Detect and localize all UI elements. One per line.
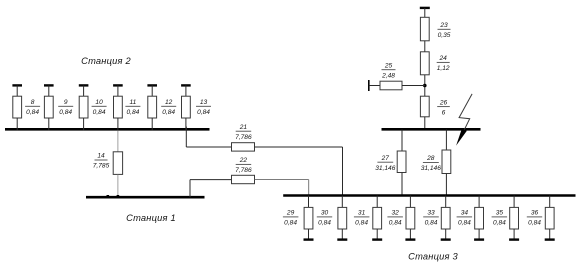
wire lead (424, 8, 426, 17)
wire lead top of R32 (409, 196, 411, 208)
terminal bar G8 (12, 84, 22, 86)
resistor R35 (510, 207, 519, 229)
wire drop from Station2 bus to link21 (185, 127, 187, 148)
svg-text:11: 11 (129, 99, 136, 106)
wire lead bottom of R9 (48, 118, 50, 131)
svg-text:0,84: 0,84 (425, 220, 438, 227)
svg-text:31: 31 (358, 210, 366, 217)
value label R23 23/0,35 (438, 22, 451, 39)
junction node (423, 84, 427, 88)
svg-text:31,146: 31,146 (375, 165, 396, 172)
resistor R26 (420, 96, 429, 117)
wire lead top of R14 (117, 131, 119, 152)
svg-text:0,84: 0,84 (284, 220, 297, 227)
svg-text:7,785: 7,785 (93, 163, 110, 170)
wire lead top of R29 (308, 196, 310, 208)
wire lead top of R10 (83, 85, 85, 96)
svg-text:30: 30 (321, 210, 329, 217)
wire drop link22 to Station3 bus (308, 180, 310, 196)
terminal bar load R31 (372, 238, 382, 240)
svg-text:34: 34 (461, 210, 469, 217)
resistor R21 (232, 143, 255, 151)
svg-text:36: 36 (531, 210, 539, 217)
svg-text:31,146: 31,146 (421, 165, 442, 172)
bus Station2 (5, 128, 210, 131)
svg-text:0,84: 0,84 (493, 220, 506, 227)
wire lead top of R34 (478, 196, 480, 208)
svg-text:0,84: 0,84 (318, 220, 331, 227)
wire lead top of R27 (401, 130, 403, 151)
svg-text:21: 21 (239, 124, 248, 131)
wire lead bottom of R30 (341, 229, 343, 240)
value label R10 10/0,84 (92, 99, 107, 116)
wire lead bottom of R11 (117, 118, 119, 131)
svg-text:0,84: 0,84 (389, 220, 402, 227)
wire lead right of R25 (402, 85, 425, 87)
svg-text:0,84: 0,84 (528, 220, 541, 227)
wire lead bottom of R13 (185, 118, 187, 131)
wire lead top of R30 (341, 196, 343, 208)
svg-text:24: 24 (439, 55, 448, 62)
resistor R34 (475, 207, 484, 229)
svg-text:9: 9 (64, 99, 68, 106)
wire lead bottom of R8 (16, 118, 18, 131)
wire drop Station1 bus to link22 (189, 180, 191, 198)
value label R22 22/7,786 (235, 157, 252, 174)
terminal bar load R32 (405, 238, 415, 240)
resistor R28 (442, 150, 451, 174)
fault lightning arrow (456, 94, 472, 146)
terminal bar branch R25 (368, 80, 370, 91)
resistor R31 (373, 207, 382, 229)
wire link22 left (190, 179, 232, 181)
svg-text:0,84: 0,84 (197, 109, 210, 116)
value label R13 13/0,84 (196, 99, 211, 116)
junction on Station1 bus (107, 195, 110, 197)
terminal bar G12 (147, 84, 157, 86)
terminal bar load R36 (545, 238, 555, 240)
svg-text:23: 23 (439, 22, 448, 29)
terminal bar load R34 (474, 238, 484, 240)
svg-text:0,84: 0,84 (59, 109, 72, 116)
wire lead bottom of R12 (151, 118, 153, 131)
svg-text:7,786: 7,786 (235, 134, 252, 141)
resistor R25 (380, 81, 402, 90)
resistor R22 (232, 175, 255, 183)
bus Station3 (283, 194, 575, 197)
wire lead top of R35 (513, 196, 515, 208)
wire lead top of R28 (445, 130, 447, 150)
value label R9 9/0,84 (58, 99, 73, 116)
svg-text:0,84: 0,84 (162, 109, 175, 116)
wire lead top of R36 (549, 196, 551, 208)
wire lead R24-junction-R26 (424, 75, 426, 96)
value label R34 34/0,84 (457, 210, 473, 227)
terminal bar load R30 (337, 238, 347, 240)
svg-text:Станция 2: Станция 2 (81, 56, 131, 66)
svg-text:26: 26 (439, 99, 448, 106)
bus Station3 upper (382, 128, 481, 131)
wire lead bottom of R36 (549, 229, 551, 240)
wire lead top of R11 (117, 85, 119, 96)
terminal bar G10 (79, 84, 89, 86)
svg-text:2,48: 2,48 (381, 72, 395, 79)
svg-text:0,84: 0,84 (93, 109, 106, 116)
terminal bar G13 (181, 84, 191, 86)
value label R33 33/0,84 (423, 210, 439, 227)
resistor R24 (420, 52, 429, 75)
svg-text:12: 12 (165, 99, 173, 106)
value label R29 29/0,84 (283, 210, 299, 227)
resistor R14 (113, 152, 122, 175)
svg-text:22: 22 (239, 157, 248, 164)
resistor R10 (79, 96, 88, 118)
svg-text:13: 13 (200, 99, 208, 106)
resistor R32 (406, 207, 415, 229)
wire lead top of R33 (445, 196, 447, 208)
svg-text:28: 28 (426, 155, 435, 162)
terminal bar load R29 (304, 238, 314, 240)
wire lead bottom of R34 (478, 229, 480, 240)
value label R36 36/0,84 (527, 210, 542, 227)
resistor R23 (420, 17, 429, 41)
svg-text:25: 25 (384, 62, 393, 69)
wire link21 right (255, 146, 343, 148)
wire lead bottom of R28 (445, 174, 447, 196)
svg-text:1,12: 1,12 (437, 65, 450, 72)
svg-text:14: 14 (97, 153, 105, 160)
wire lead bottom of R33 (445, 229, 447, 240)
value label R32 32/0,84 (387, 210, 403, 227)
resistor R36 (545, 207, 554, 229)
wire lead top of R8 (16, 85, 18, 96)
wire lead R23-R24 (424, 41, 426, 52)
terminal bar G9 (44, 84, 54, 86)
svg-text:10: 10 (95, 99, 103, 106)
resistor R27 (397, 151, 406, 173)
value label R30 30/0,84 (317, 210, 332, 227)
value label R11 11/0,84 (125, 99, 140, 116)
svg-text:0,84: 0,84 (458, 220, 471, 227)
wire lead top of R9 (48, 85, 50, 96)
wire lead bottom of R32 (409, 229, 411, 240)
terminal bar G11 (113, 84, 123, 86)
terminal bar G23 (420, 7, 430, 9)
wire lead left of R25 (369, 85, 380, 87)
resistor R9 (44, 96, 53, 118)
svg-text:0,84: 0,84 (126, 109, 139, 116)
svg-text:29: 29 (286, 210, 295, 217)
wire lead bottom of R31 (376, 229, 378, 240)
value label R21 21/7,786 (235, 124, 252, 141)
wire link21 left (186, 146, 231, 148)
wire lead top of R31 (376, 196, 378, 208)
svg-text:0,35: 0,35 (438, 32, 451, 39)
wire lead bottom of R14 (117, 174, 119, 197)
value label R24 24/1,12 (437, 55, 450, 72)
svg-text:33: 33 (427, 210, 435, 217)
wire lead top of R12 (151, 85, 153, 96)
junction R14 at Station1 bus (117, 195, 120, 197)
svg-text:6: 6 (442, 109, 446, 116)
wire lead R26 to upper bus (424, 117, 426, 130)
svg-text:0,84: 0,84 (355, 220, 368, 227)
value label R8 8/0,84 (25, 99, 40, 116)
value label R12 12/0,84 (161, 99, 176, 116)
value label R28 28/31,146 (421, 155, 442, 172)
svg-text:35: 35 (496, 210, 504, 217)
svg-text:8: 8 (31, 99, 35, 106)
resistor R11 (114, 96, 123, 118)
resistor R33 (441, 207, 450, 229)
resistor R30 (338, 207, 347, 229)
svg-text:Станция 3: Станция 3 (408, 252, 458, 262)
wire lead bottom of R35 (513, 229, 515, 240)
wire lead bottom of R10 (83, 118, 85, 131)
resistor R12 (148, 96, 157, 118)
svg-text:32: 32 (392, 210, 400, 217)
value label R27 27/31,146 (375, 155, 396, 172)
value label R25 25/2,48 (381, 62, 395, 79)
wire lead bottom of R27 (401, 173, 403, 196)
svg-text:7,786: 7,786 (235, 167, 252, 174)
resistor R29 (304, 207, 313, 229)
terminal bar load R35 (509, 238, 519, 240)
value label R14 14/7,785 (93, 153, 110, 170)
svg-text:0,84: 0,84 (26, 109, 39, 116)
wire lead top of R13 (185, 85, 187, 96)
svg-text:Станция 1: Станция 1 (126, 213, 176, 223)
terminal bar load R33 (441, 238, 451, 240)
wire drop link21 to Station3 bus (342, 147, 344, 196)
value label R35 35/0,84 (492, 210, 508, 227)
resistor R13 (182, 96, 191, 118)
value label R31 31/0,84 (354, 210, 370, 227)
resistor R8 (13, 96, 22, 118)
bus Station1 (86, 196, 205, 199)
svg-text:27: 27 (381, 155, 390, 162)
wire lead bottom of R29 (308, 229, 310, 240)
value label R26 26/6 (437, 99, 450, 116)
wire link22 right (255, 179, 309, 181)
